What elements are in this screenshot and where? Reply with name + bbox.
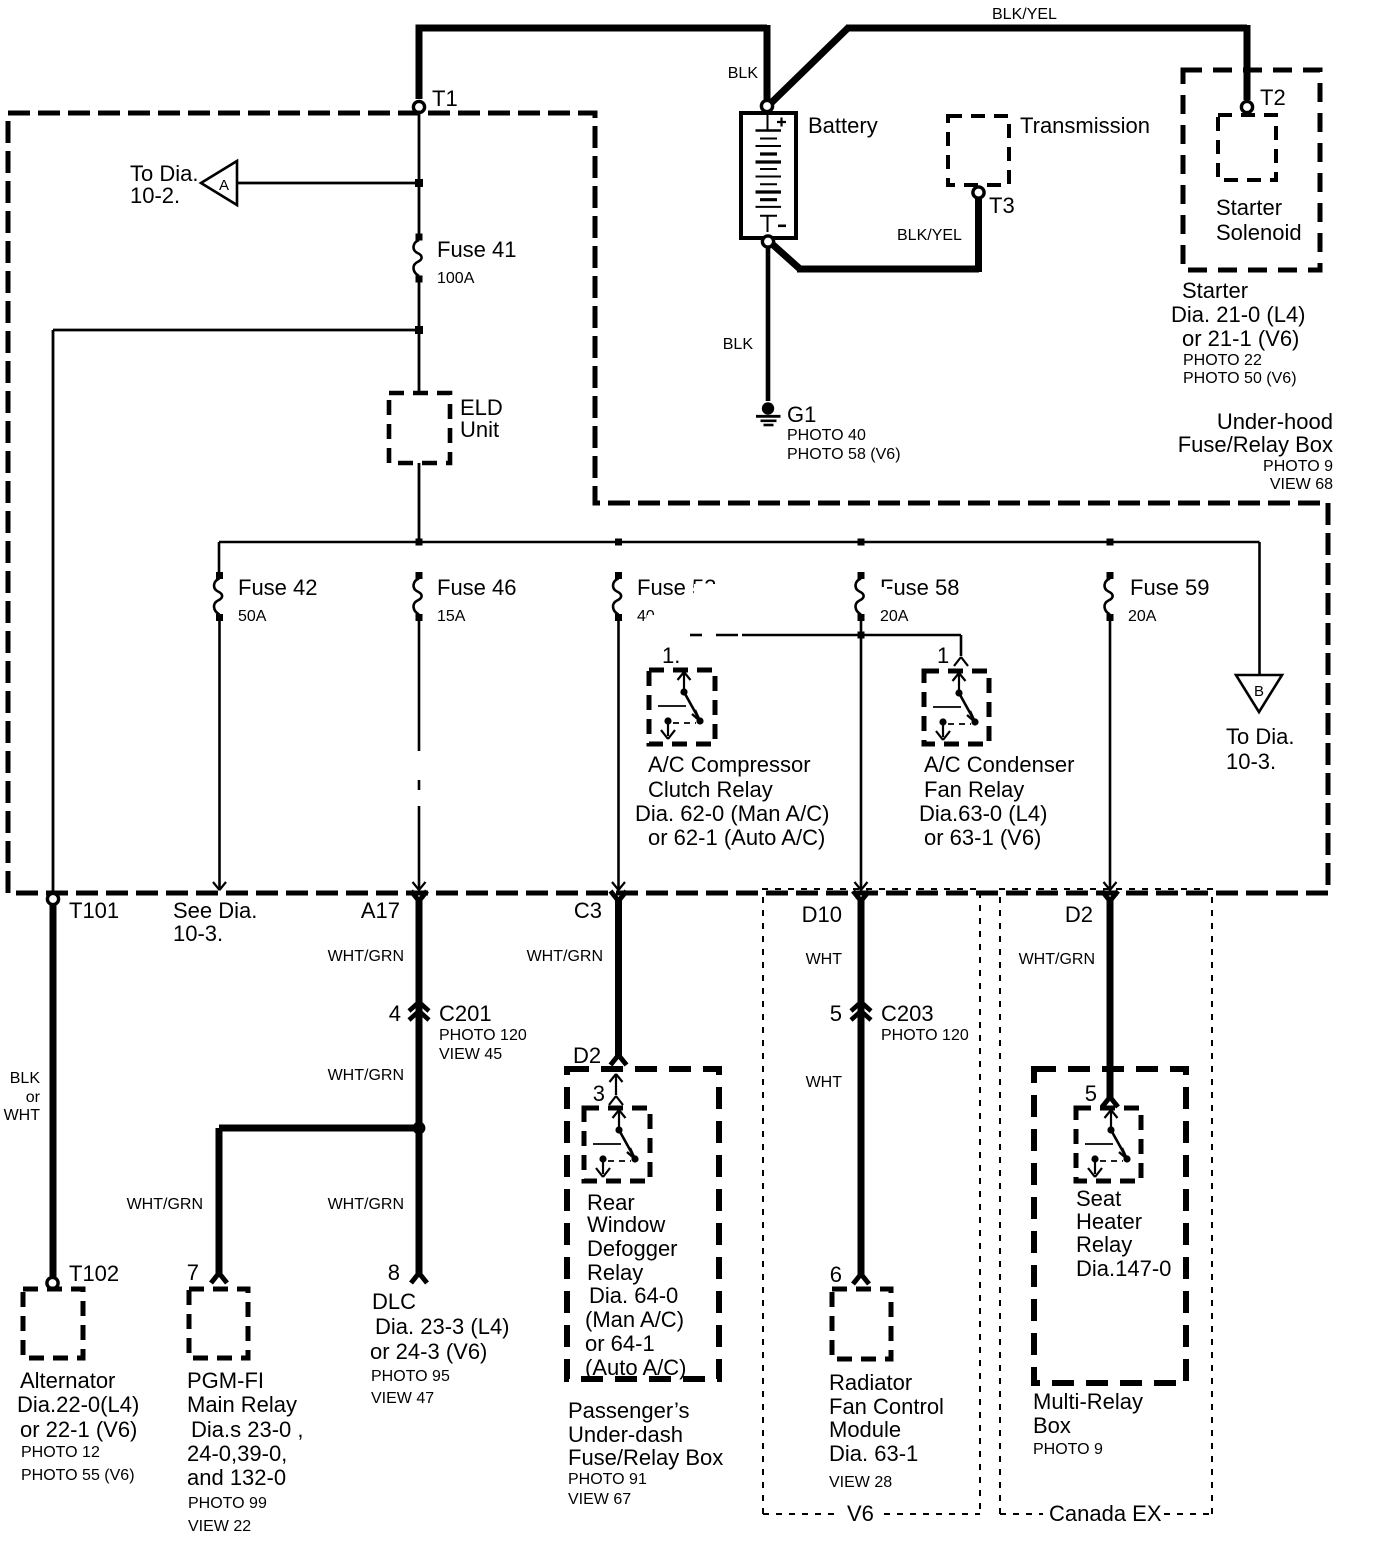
- connector Y: D10 wire start: [853, 891, 869, 901]
- connector C203 chevrons: [851, 1002, 871, 1020]
- wire: D2 thick column down into multi-relay box: [1107, 897, 1114, 1100]
- terminal T2: [1241, 101, 1252, 112]
- battery minus sign: [778, 225, 786, 228]
- battery negative terminal circle: [762, 236, 773, 247]
- wire: riser up to terminal T3: [975, 199, 982, 272]
- svg-text:or 63-1 (V6): or 63-1 (V6): [924, 825, 1041, 850]
- svg-text:Main Relay: Main Relay: [187, 1392, 297, 1417]
- svg-text:T1: T1: [432, 86, 458, 111]
- svg-text:PGM-FI: PGM-FI: [187, 1368, 264, 1393]
- wire: horizontal branch to T101 column: [53, 329, 419, 332]
- svg-text:C3: C3: [574, 898, 602, 923]
- svg-text:Defogger: Defogger: [587, 1236, 678, 1261]
- svg-text:5: 5: [1085, 1081, 1097, 1106]
- white-out patch over Fuse 53 label: [694, 584, 736, 597]
- wire: branch to triangle A: [237, 182, 419, 185]
- svg-text:A17: A17: [361, 898, 400, 923]
- svg-text:WHT/GRN: WHT/GRN: [328, 1067, 404, 1084]
- svg-text:3: 3: [593, 1081, 605, 1106]
- node: bus junction at Fuse 53 column: [615, 539, 622, 546]
- battery positive terminal circle: [761, 100, 772, 111]
- svg-text:10-2.: 10-2.: [130, 183, 180, 208]
- svg-text:VIEW 47: VIEW 47: [371, 1390, 434, 1407]
- svg-text:A: A: [219, 177, 229, 194]
- passenger under-dash fuse/relay box dashed outline: [567, 1069, 719, 1379]
- svg-text:D2: D2: [1065, 902, 1093, 927]
- svg-text:Fuse/Relay Box: Fuse/Relay Box: [1178, 432, 1333, 457]
- wire: Fuse 46 down (segment 1): [418, 619, 421, 751]
- Canada EX dotted box: [1000, 889, 1212, 1514]
- svg-text:15A: 15A: [437, 608, 466, 625]
- svg-text:Fuse 46: Fuse 46: [437, 575, 517, 600]
- wire: branch to PGM-FI main relay (horizontal): [219, 1125, 421, 1132]
- svg-text:PHOTO 120: PHOTO 120: [439, 1027, 527, 1044]
- wire: BLK battery negative down to ground G1: [766, 245, 771, 401]
- svg-text:Radiator: Radiator: [829, 1370, 912, 1395]
- svg-text:Clutch Relay: Clutch Relay: [648, 777, 773, 802]
- svg-text:Dia. 63-1: Dia. 63-1: [829, 1441, 918, 1466]
- pin caret: defogger relay pin 3: [609, 1096, 623, 1105]
- terminal T3: [973, 187, 984, 198]
- svg-text:Transmission: Transmission: [1020, 113, 1150, 138]
- wire: A17 thick column down: [416, 897, 423, 1276]
- triangle A (To Dia. 10-2): [201, 161, 237, 205]
- svg-text:WHT: WHT: [4, 1107, 41, 1124]
- starter solenoid inner dashed box: [1218, 115, 1276, 180]
- svg-text:or 22-1 (V6): or 22-1 (V6): [20, 1417, 137, 1442]
- svg-text:Dia. 64-0: Dia. 64-0: [589, 1283, 678, 1308]
- relay K3: rear window defogger relay dashed box: [584, 1108, 650, 1181]
- battery internal plates: [756, 115, 782, 232]
- svg-text:WHT/GRN: WHT/GRN: [127, 1196, 203, 1213]
- wire: branch to PGM-FI main relay (vertical): [216, 1128, 223, 1275]
- alternator dashed box: [23, 1289, 83, 1358]
- svg-text:PHOTO 58 (V6): PHOTO 58 (V6): [787, 446, 901, 463]
- svg-text:24-0,39-0,: 24-0,39-0,: [187, 1441, 287, 1466]
- svg-text:T101: T101: [69, 898, 119, 923]
- svg-text:Fuse 59: Fuse 59: [1130, 575, 1210, 600]
- relay K1 internal contacts: [658, 672, 704, 739]
- svg-text:BLK: BLK: [10, 1070, 41, 1087]
- svg-text:Fuse 58: Fuse 58: [880, 575, 960, 600]
- wire: top-left horizontal rail T1 to battery positive: [416, 25, 768, 32]
- wire: D10 thick column down: [858, 897, 865, 1277]
- svg-text:BLK/YEL: BLK/YEL: [897, 227, 962, 244]
- svg-text:DLC: DLC: [372, 1289, 416, 1314]
- arrowhead at box edge D2 (Canada EX): [1104, 882, 1117, 890]
- node: junction at A17 column / PGM-FI branch: [413, 1122, 426, 1135]
- radiator fan control module dashed box: [832, 1289, 891, 1359]
- svg-text:Heater: Heater: [1076, 1209, 1142, 1234]
- svg-text:Dia.22-0(L4): Dia.22-0(L4): [17, 1392, 139, 1417]
- svg-text:or 64-1: or 64-1: [585, 1331, 655, 1356]
- svg-text:Relay: Relay: [587, 1260, 643, 1285]
- svg-text:Under-hood: Under-hood: [1217, 409, 1333, 434]
- svg-text:T3: T3: [989, 193, 1015, 218]
- fuse F58 element: [856, 572, 865, 621]
- svg-text:Fan Control: Fan Control: [829, 1394, 944, 1419]
- svg-text:20A: 20A: [1128, 608, 1157, 625]
- svg-text:4: 4: [389, 1001, 401, 1026]
- svg-text:Unit: Unit: [460, 417, 499, 442]
- svg-text:Fuse 42: Fuse 42: [238, 575, 318, 600]
- pin caret: condenser fan relay pin 1: [954, 657, 968, 666]
- svg-text:Module: Module: [829, 1417, 901, 1442]
- svg-text:WHT: WHT: [806, 1074, 843, 1091]
- connector Y: A17 wire start: [411, 891, 427, 901]
- fuse F53 element: [613, 572, 622, 621]
- connector fork: PGM-FI pin 7: [211, 1273, 227, 1283]
- svg-text:or 21-1 (V6): or 21-1 (V6): [1182, 326, 1299, 351]
- svg-text:Canada EX: Canada EX: [1049, 1501, 1162, 1526]
- arrowhead at box edge A17: [413, 882, 426, 890]
- terminal T1: [413, 101, 424, 112]
- arrowhead at box edge (See Dia. 10-3.): [213, 882, 226, 890]
- svg-text:To Dia.: To Dia.: [1226, 724, 1294, 749]
- arrowhead at box edge D10: [855, 882, 868, 890]
- svg-text:PHOTO 9: PHOTO 9: [1263, 458, 1333, 475]
- wire: ELD unit down to fuse bus: [418, 463, 421, 542]
- svg-text:PHOTO 40: PHOTO 40: [787, 427, 866, 444]
- wire: drop to A/C condenser fan relay pin 1: [960, 635, 963, 656]
- wire: BLK/YEL horizontal to T3 riser: [797, 266, 979, 273]
- svg-text:or 24-3 (V6): or 24-3 (V6): [370, 1339, 487, 1364]
- relay K1: A/C compressor clutch relay dashed box: [649, 670, 715, 744]
- wire: drop from rail to terminal T2: [1244, 25, 1251, 100]
- svg-text:B: B: [1254, 683, 1264, 700]
- multi-relay box dashed outline: [1034, 1069, 1186, 1383]
- ground symbol G1: [756, 402, 781, 425]
- svg-text:WHT/GRN: WHT/GRN: [527, 948, 603, 965]
- under-hood fuse/relay box dashed outline: [8, 113, 1328, 893]
- svg-text:BLK/YEL: BLK/YEL: [992, 6, 1057, 23]
- svg-text:1.: 1.: [662, 643, 680, 668]
- wire: Fuse 53 down to C3: [617, 619, 620, 888]
- svg-text:VIEW 67: VIEW 67: [568, 1491, 631, 1508]
- wire: T101 column down inside box: [52, 330, 55, 894]
- fuse F41 element: [414, 234, 423, 283]
- svg-text:Dia. 23-3 (L4): Dia. 23-3 (L4): [375, 1314, 510, 1339]
- node: bus junction at Fuse 58 column: [858, 539, 865, 546]
- wire: T1 down to Fuse 41: [418, 113, 421, 234]
- svg-text:D2: D2: [573, 1043, 601, 1068]
- svg-text:10-3.: 10-3.: [1226, 749, 1276, 774]
- svg-text:Fuse 41: Fuse 41: [437, 237, 517, 262]
- svg-text:T2: T2: [1260, 85, 1286, 110]
- connector fork: radiator fan module pin 6: [853, 1274, 869, 1284]
- connector fork: DLC pin 8: [411, 1273, 427, 1283]
- wire: Fuse 46 down (segment 2) to A17: [418, 806, 421, 888]
- wire: junction down to ELD unit: [418, 330, 421, 395]
- svg-text:Multi-Relay: Multi-Relay: [1033, 1389, 1143, 1414]
- svg-text:Alternator: Alternator: [20, 1368, 115, 1393]
- svg-text:Under-dash: Under-dash: [568, 1422, 683, 1447]
- battery plus sign: [777, 118, 786, 127]
- svg-text:PHOTO 50 (V6): PHOTO 50 (V6): [1183, 370, 1297, 387]
- svg-text:WHT: WHT: [806, 951, 843, 968]
- svg-text:PHOTO 9: PHOTO 9: [1033, 1441, 1103, 1458]
- svg-text:VIEW 68: VIEW 68: [1270, 476, 1333, 493]
- fuse F46 element: [414, 572, 423, 621]
- svg-text:Starter: Starter: [1182, 278, 1248, 303]
- wire: battery negative diagonal: [771, 243, 800, 269]
- svg-text:100A: 100A: [437, 270, 475, 287]
- svg-text:D10: D10: [802, 902, 842, 927]
- connector fork: D2 passenger box: [611, 1055, 627, 1065]
- wire: Fuse 58 down to D10: [860, 619, 863, 888]
- starter outer dashed box: [1183, 70, 1320, 270]
- svg-text:T102: T102: [69, 1261, 119, 1286]
- svg-text:Dia.63-0 (L4): Dia.63-0 (L4): [919, 801, 1047, 826]
- wire: BLK/YEL top horizontal rail to T2: [846, 25, 1247, 32]
- fuse F59 element: [1105, 572, 1114, 621]
- white-out patch over Fuse 58 F stem: [878, 587, 887, 597]
- relay K3 internal contacts: [593, 1110, 639, 1177]
- svg-text:6: 6: [830, 1262, 842, 1287]
- node: junction below Fuse 41: [415, 326, 423, 334]
- wire: relay feed line remnants (erased left end): [690, 634, 702, 637]
- svg-text:WHT/GRN: WHT/GRN: [1019, 951, 1095, 968]
- svg-text:50A: 50A: [238, 608, 267, 625]
- svg-text:PHOTO 91: PHOTO 91: [568, 1471, 647, 1488]
- svg-text:PHOTO 95: PHOTO 95: [371, 1368, 450, 1385]
- svg-text:C203: C203: [881, 1001, 934, 1026]
- wire: drop from rail to terminal T1: [416, 25, 423, 99]
- terminal T101 on box edge: [47, 893, 58, 904]
- wire: Fuse 42 down to See Dia. arrow: [218, 619, 221, 888]
- svg-text:Dia.s 23-0 ,: Dia.s 23-0 ,: [191, 1417, 304, 1442]
- triangle B (To Dia. 10-3): [1236, 675, 1282, 712]
- svg-text:5: 5: [830, 1001, 842, 1026]
- node: bus junction at Fuse 59 column: [1107, 539, 1114, 546]
- wire: drop from rail to battery positive terminal: [764, 25, 771, 100]
- svg-text:Solenoid: Solenoid: [1216, 220, 1302, 245]
- wire: C3 thick column down to D2: [615, 897, 622, 1058]
- transmission dashed box: [948, 116, 1009, 185]
- wire: bus down to Fuse 42: [218, 542, 221, 573]
- svg-text:Seat: Seat: [1076, 1186, 1121, 1211]
- svg-text:VIEW 45: VIEW 45: [439, 1046, 502, 1063]
- svg-text:10-3.: 10-3.: [173, 921, 223, 946]
- svg-text:or: or: [26, 1089, 41, 1106]
- svg-text:WHT/GRN: WHT/GRN: [328, 1196, 404, 1213]
- svg-text:G1: G1: [787, 402, 816, 427]
- relay K2: A/C condenser fan relay dashed box: [924, 671, 989, 744]
- svg-text:V6: V6: [847, 1501, 874, 1526]
- white-out patch over 40A label: [647, 615, 657, 624]
- battery body: [741, 113, 796, 238]
- svg-text:20A: 20A: [880, 608, 909, 625]
- fuse F42 element: [214, 572, 223, 621]
- svg-text:Passenger’s: Passenger’s: [568, 1398, 689, 1423]
- terminal T102: [47, 1277, 58, 1288]
- svg-text:VIEW 28: VIEW 28: [829, 1474, 892, 1491]
- connector fork: seat heater relay pin 5: [1102, 1097, 1118, 1107]
- wire: fuse bus horizontal: [219, 541, 1260, 544]
- wire: BLK/YEL diagonal from battery positive up-right: [769, 27, 849, 105]
- svg-text:VIEW 22: VIEW 22: [188, 1518, 251, 1535]
- svg-text:A/C Condenser: A/C Condenser: [924, 752, 1074, 777]
- svg-text:Window: Window: [587, 1212, 665, 1237]
- V6 dotted box: [763, 889, 980, 1514]
- svg-text:1: 1: [937, 643, 949, 668]
- svg-text:Dia.147-0: Dia.147-0: [1076, 1256, 1171, 1281]
- svg-text:(Man A/C): (Man A/C): [585, 1307, 684, 1332]
- svg-text:Box: Box: [1033, 1413, 1071, 1438]
- svg-text:PHOTO 12: PHOTO 12: [21, 1444, 100, 1461]
- wire: Fuse 59 down to D2: [1109, 619, 1112, 888]
- node: bus junction at ELD column: [416, 539, 423, 546]
- relay K2 internal contacts: [933, 673, 979, 740]
- svg-text:BLK: BLK: [723, 336, 754, 353]
- svg-text:Battery: Battery: [808, 113, 878, 138]
- arrowhead at box edge C3: [612, 882, 625, 890]
- svg-text:PHOTO 99: PHOTO 99: [188, 1495, 267, 1512]
- connector Y: D2 wire start (Canada EX): [1102, 891, 1118, 901]
- svg-text:See Dia.: See Dia.: [173, 898, 257, 923]
- svg-text:Dia. 62-0 (Man A/C): Dia. 62-0 (Man A/C): [635, 801, 829, 826]
- svg-text:and 132-0: and 132-0: [187, 1465, 286, 1490]
- svg-text:Fan Relay: Fan Relay: [924, 777, 1024, 802]
- connector C201 chevrons: [409, 1002, 429, 1020]
- PGM-FI main relay dashed box: [189, 1289, 248, 1358]
- node: junction at T1 column / triangle A branch: [415, 179, 423, 187]
- svg-text:A/C Compressor: A/C Compressor: [648, 752, 811, 777]
- svg-text:Fuse/Relay Box: Fuse/Relay Box: [568, 1445, 723, 1470]
- svg-text:WHT/GRN: WHT/GRN: [328, 948, 404, 965]
- svg-text:BLK: BLK: [728, 65, 759, 82]
- ELD unit dashed box: [389, 393, 450, 463]
- svg-text:Starter: Starter: [1216, 195, 1282, 220]
- wire: bus right end down to triangle B: [1258, 542, 1261, 675]
- svg-text:C201: C201: [439, 1001, 492, 1026]
- connector Y: C3 wire start: [611, 891, 627, 901]
- svg-text:8: 8: [388, 1260, 400, 1285]
- node: junction of relay feed line on Fuse 58 column: [858, 632, 865, 639]
- wire: relay feed line from Fuse 58 column: [742, 634, 961, 637]
- svg-text:PHOTO 55 (V6): PHOTO 55 (V6): [21, 1467, 135, 1484]
- svg-text:Dia. 21-0 (L4): Dia. 21-0 (L4): [1171, 302, 1306, 327]
- svg-text:(Auto A/C): (Auto A/C): [585, 1355, 686, 1380]
- wire: Fuse 41 to junction: [418, 281, 421, 330]
- svg-text:or 62-1 (Auto A/C): or 62-1 (Auto A/C): [648, 825, 825, 850]
- wire: Fuse 46 down (erased remnant dash): [418, 780, 421, 790]
- relay K4: seat heater relay dashed box: [1076, 1108, 1141, 1181]
- arrow up into passenger box edge: [615, 1075, 617, 1095]
- svg-text:PHOTO 22: PHOTO 22: [1183, 352, 1262, 369]
- svg-text:PHOTO 120: PHOTO 120: [881, 1027, 969, 1044]
- wire: T101 down to T102: [50, 905, 57, 1277]
- relay K4 internal contacts: [1085, 1110, 1131, 1177]
- svg-text:Relay: Relay: [1076, 1232, 1132, 1257]
- svg-text:7: 7: [187, 1260, 199, 1285]
